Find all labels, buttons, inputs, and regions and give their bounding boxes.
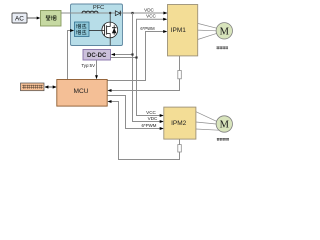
wire IPM1 sense: [109, 56, 180, 91]
wire 6*PWM IPM2: [107, 96, 162, 129]
node label 压缩电机: [216, 46, 228, 49]
wire to DC-DC: [112, 54, 133, 56]
svg-text:VDC: VDC: [148, 116, 158, 121]
svg-text:6*PWM: 6*PWM: [142, 123, 157, 128]
node: junction VCC at DC-DC output: [135, 56, 137, 58]
wire AC to rectifier: [27, 17, 39, 19]
wire IPM2 sense: [109, 102, 180, 160]
svg-text:MCU: MCU: [73, 88, 88, 95]
rectifier block 整流: [41, 11, 62, 27]
inductor L: [82, 11, 98, 13]
motor M2 室外风机: [216, 116, 232, 132]
IPM2: [164, 107, 196, 139]
transistor Q1 IGBT: [89, 13, 118, 46]
wire motor1 phases: [198, 23, 217, 28]
diode D boost: [115, 11, 120, 16]
wire PFC drive: [68, 31, 73, 80]
svg-text:6*PWM: 6*PWM: [140, 26, 155, 31]
svg-text:VDC: VDC: [144, 7, 154, 12]
node: VDC bus junction: [131, 12, 133, 14]
wire DC bus to IPM1: [61, 12, 167, 14]
svg-text:VCC: VCC: [146, 14, 156, 19]
comm block 内外机通讯: [21, 83, 45, 91]
svg-text:M: M: [220, 26, 230, 37]
node label 室外风机: [217, 138, 229, 141]
wire VDC bus: [133, 13, 163, 122]
resistor: IPM2 shunt: [178, 145, 182, 152]
svg-text:IPM2: IPM2: [171, 120, 187, 127]
wire VCC net: [111, 19, 167, 57]
node: IGBT collector junction: [109, 12, 111, 14]
PFC block: [71, 4, 123, 46]
svg-text:DC-DC: DC-DC: [87, 53, 107, 59]
svg-text:VCC: VCC: [146, 110, 156, 115]
node: junction on VDC bus at DC-DC branch: [131, 53, 133, 55]
wire 6*PWM IPM1: [107, 32, 166, 81]
driver block 低边驱动: [75, 22, 90, 37]
wire motor2 phases: [196, 112, 217, 122]
wire comm link: [45, 86, 56, 88]
wire Typ:5V: [96, 60, 98, 78]
svg-text:IPM1: IPM1: [171, 27, 187, 34]
resistor: IPM1 shunt: [178, 71, 182, 79]
svg-text:AC: AC: [15, 16, 24, 23]
MCU: [57, 80, 107, 107]
svg-text:PFC: PFC: [93, 5, 104, 11]
motor M1 压缩电机: [216, 23, 232, 39]
DC-DC converter: [83, 50, 111, 61]
svg-text:M: M: [220, 120, 230, 131]
IPM1: [168, 5, 198, 56]
source AC: [12, 13, 27, 23]
svg-text:Typ:5V: Typ:5V: [81, 63, 95, 68]
